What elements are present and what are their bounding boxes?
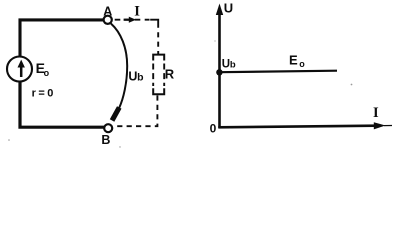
wire corner dash (top right)	[150, 20, 158, 28]
svg-text:I: I	[134, 4, 140, 20]
wire top-left (source to node A)	[20, 20, 104, 57]
speck noise	[8, 40, 352, 147]
svg-text:r = 0: r = 0	[32, 88, 54, 100]
wire dashed from resistor bottom to node B	[113, 95, 157, 126]
svg-text:E: E	[289, 53, 298, 68]
resistor R (dashed outline)	[153, 55, 164, 95]
svg-text:R: R	[165, 67, 175, 82]
svg-text:I: I	[373, 105, 379, 121]
node A (terminal)	[104, 16, 112, 24]
svg-text:A: A	[103, 4, 112, 18]
node B (terminal)	[104, 124, 112, 132]
wire dashed down to resistor top	[157, 32, 159, 54]
svg-text:o: o	[299, 59, 305, 69]
voltage arrow Ub (arc from A to B)	[110, 24, 127, 122]
svg-text:Ub: Ub	[222, 59, 236, 71]
wire dashed from A to corner	[113, 19, 150, 21]
voltage source E0	[7, 57, 32, 82]
wire bottom-left (source to node B)	[20, 82, 104, 128]
svg-text:U: U	[224, 1, 233, 16]
characteristic line E0	[220, 71, 338, 73]
node Ub on axis (dot)	[216, 69, 222, 75]
svg-text:Ub: Ub	[128, 69, 143, 83]
svg-text:B: B	[101, 133, 110, 147]
svg-text:0: 0	[210, 122, 217, 136]
axis I (horizontal, graph)	[218, 122, 392, 129]
current arrow I	[124, 17, 136, 23]
svg-text:o: o	[44, 68, 50, 78]
axis U (vertical, graph)	[216, 4, 223, 129]
